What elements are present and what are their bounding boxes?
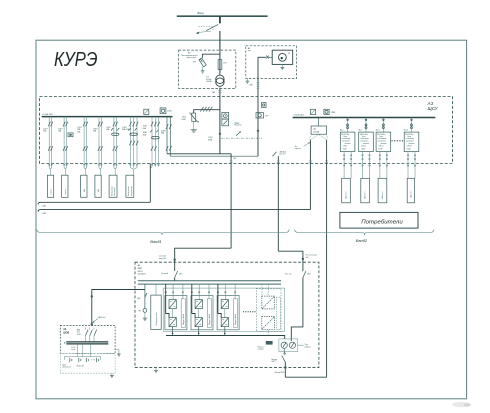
UPS internal bus: [138, 281, 281, 284]
svg-text:ШОБ: ШОБ: [63, 331, 69, 334]
bypass switch group: [279, 339, 311, 352]
svg-text:2ДГ: 2ДГ: [313, 128, 316, 130]
metering box A5: [246, 46, 297, 79]
fuse FU1: [218, 50, 227, 75]
right branch Вв.N: [404, 118, 413, 133]
node 1QF0: [208, 133, 221, 141]
svg-text:≈0,4кВ 2ШС: ≈0,4кВ 2ШС: [293, 114, 305, 116]
branch 1QF2: [58, 117, 73, 164]
ground (arrester): [201, 67, 205, 73]
svg-text:учёт: учёт: [248, 50, 252, 52]
svg-text:электропит.: электропит.: [406, 140, 415, 142]
svg-text:стабилизир.: стабилизир.: [360, 138, 370, 140]
svg-text:Блок: Блок: [408, 136, 412, 138]
meter PI1: [272, 50, 293, 64]
wire to arrester: [203, 54, 220, 58]
switchboard box A3 ЩСУ: [40, 97, 453, 164]
svg-text:АКБ №1: АКБ №1: [98, 316, 105, 319]
wire 1QF8 to drop: [167, 154, 258, 156]
inverter module1: [169, 309, 176, 327]
rectifier module2: [195, 300, 202, 309]
plug connector (generator): [309, 134, 328, 139]
right branch Вв.1: [340, 118, 349, 133]
breaker QF2 (reserve input): [285, 262, 311, 277]
battery elements box: [60, 353, 115, 373]
svg-text:≈0,4кВ 1ШС: ≈0,4кВ 1ШС: [42, 114, 54, 116]
svg-text:Ввод: Ввод: [198, 11, 204, 15]
ellipsis modules: [243, 311, 256, 312]
svg-text:электропит.: электропит.: [377, 140, 386, 142]
battery string wires: [78, 344, 91, 357]
lamp 2ЛВ1: [324, 109, 336, 114]
branch 1QF6: [122, 117, 138, 164]
svg-text:W: W: [288, 53, 290, 55]
load ЩС1: [109, 175, 117, 197]
load Насос1: [47, 175, 53, 197]
svg-text:Потребители: Потребители: [361, 220, 403, 226]
wire UPS output down: [275, 362, 327, 377]
UPS cabinet box A1 ИБП: [135, 262, 319, 367]
control link (dash-dot): [221, 123, 262, 138]
svg-text:УЗИП: УЗИП: [181, 119, 186, 121]
svg-text:байпас: байпас: [305, 345, 311, 348]
drawing frame: [36, 40, 467, 399]
svg-text:КУРЭ: КУРЭ: [54, 48, 98, 71]
node branch7 out: [150, 164, 159, 169]
branch 1QF1: [43, 117, 53, 164]
ellipsis dots: [392, 140, 404, 141]
inverter module2: [195, 309, 202, 327]
UPS power module 2: [191, 284, 213, 330]
svg-text:Электрообор.: Электрообор.: [128, 185, 130, 196]
svg-text:Элементы: Элементы: [62, 367, 71, 369]
stabilizer unit 2: [359, 132, 374, 151]
load ЩС2: [126, 175, 134, 197]
svg-text:стабилизир.: стабилизир.: [377, 138, 387, 140]
node load3: [83, 164, 87, 176]
ground (meter): [281, 64, 285, 69]
svg-text:Абонент: Абонент: [345, 191, 348, 198]
svg-text:Абонент: Абонент: [381, 191, 384, 198]
stubs under unit N: [407, 152, 416, 179]
node UPS reserve input: [302, 255, 317, 260]
svg-text:ЩСУ: ЩСУ: [428, 106, 439, 111]
module2 output: [198, 327, 200, 336]
stabilizer unit 3: [376, 132, 391, 151]
rectifier module1: [169, 300, 176, 309]
svg-text:Ввод1: Ввод1: [150, 239, 161, 244]
svg-text:элем.: элем.: [71, 349, 76, 351]
ground (UPS cabinet): [154, 368, 158, 373]
svg-text:Распределение: Распределение: [156, 312, 158, 325]
watermark smudge: [452, 402, 471, 407]
svg-text:Мод. 2В: Мод. 2В: [77, 365, 85, 367]
bus Ввод (top supply busbar): [177, 11, 268, 16]
svg-text:Сетевой: Сетевой: [161, 272, 168, 275]
branch 1QF5: [106, 117, 119, 164]
wire meter drop: [249, 57, 259, 96]
node load5: [113, 164, 117, 176]
branch 1QF8 (feeder to UPS): [161, 117, 172, 157]
node UPS mains input: [159, 255, 176, 261]
transformer T1: [206, 75, 224, 86]
svg-text:ввод №1: ввод №1: [159, 257, 166, 260]
breaker 2QF (PE branch): [137, 290, 147, 309]
rectifier module3: [221, 300, 228, 309]
right branch Вв.2: [358, 118, 367, 133]
svg-text:Блок: Блок: [344, 136, 348, 138]
switch 2АВ (reserve feeder): [272, 151, 286, 157]
branch 1QF3: [77, 117, 88, 164]
module1 output: [172, 327, 174, 336]
svg-text:ИБП: ИБП: [138, 268, 143, 270]
svg-text:подстанция: подстанция: [187, 57, 197, 59]
breaker QF1 (UPS input): [161, 262, 183, 281]
battery busbar: [64, 342, 108, 351]
lamp box HL1: [144, 109, 149, 114]
svg-text:стабилизир.: стабилизир.: [406, 138, 416, 140]
brace Ввод1: [37, 230, 289, 245]
node load1: [49, 164, 53, 176]
svg-text:стабилизир.: стабилизир.: [342, 138, 352, 140]
distribution panel (left tall rect): [151, 284, 161, 329]
changeover device boxes on main drop: [222, 112, 243, 126]
svg-text:Блок: Блок: [362, 136, 366, 138]
svg-text:вентиляции: вентиляции: [114, 187, 116, 196]
module1 label plate: [181, 299, 185, 328]
stabilizer unit N: [404, 132, 419, 151]
svg-text:Вв.N: Вв.N: [404, 130, 409, 132]
bus 1ШС (left section busbar): [42, 114, 173, 117]
UPS future module N (dashed): [256, 284, 281, 331]
svg-text:Вв.3: Вв.3: [376, 130, 380, 132]
svg-text:№2: №2: [306, 256, 309, 259]
load ЩО1: [81, 175, 87, 197]
svg-text:10кВт: 10кВт: [378, 149, 382, 151]
svg-text:2х58: 2х58: [77, 334, 81, 336]
surge arrester FV1: [199, 58, 206, 67]
wire battery feeder: [91, 284, 145, 325]
brace Ввод2: [295, 230, 434, 243]
UPS module group frame: [163, 288, 285, 331]
wire main feeder down (Ввод1 to UPS): [175, 154, 237, 262]
PE node: [138, 309, 147, 321]
module2 label plate: [207, 299, 211, 328]
svg-text:СЭП-3: СЭП-3: [378, 146, 383, 148]
wire generator cable down: [38, 140, 312, 215]
node load6: [130, 164, 138, 176]
ground (A5 box): [246, 79, 250, 84]
node load4: [98, 164, 102, 176]
transformer substation box A7: [179, 50, 236, 88]
drop from T1 continues inside ЩСУ: [219, 112, 221, 153]
wire from QS1 to A7 box: [219, 31, 221, 50]
breaker 3QF (battery, 3-pole): [85, 328, 96, 342]
UPS power module 3: [217, 284, 239, 330]
svg-text:1Т1: 1Т1: [206, 77, 209, 79]
svg-text:Абонент: Абонент: [364, 191, 367, 198]
branch 1QF4: [93, 117, 103, 164]
wire T1 to ЩСУ: [212, 88, 222, 113]
module3 output: [224, 327, 226, 336]
svg-text:электропит.: электропит.: [342, 140, 351, 142]
load ЩО2: [95, 175, 101, 197]
svg-text:1кВ1: 1кВ1: [42, 206, 46, 208]
svg-text:Насос: Насос: [65, 189, 67, 194]
switch UPS output: [272, 348, 286, 363]
title КУРЭ: [54, 48, 98, 71]
svg-text:кондиционир.: кондиционир.: [131, 185, 133, 196]
wire UPS output riser: [325, 140, 328, 378]
svg-text:10кВт: 10кВт: [361, 149, 365, 151]
UPS output bus: [166, 329, 285, 339]
svg-text:QF2: QF2: [307, 274, 311, 276]
load Абонент1: [342, 178, 351, 203]
svg-text:100кВА: 100кВА: [313, 130, 320, 133]
inverter module3: [221, 309, 228, 327]
rectifier moduleN (dashed): [262, 296, 275, 309]
load Абонент2: [361, 178, 370, 203]
disconnector QS1: [196, 16, 220, 34]
svg-text:1Ш1: 1Ш1: [233, 158, 236, 160]
load Насос2: [62, 175, 68, 197]
stubs under unit 1: [343, 152, 352, 179]
battery cells chain: [64, 357, 100, 363]
service box: [257, 341, 272, 351]
svg-text:40А 25А: 40А 25А: [122, 128, 130, 131]
svg-text:СЭП-1: СЭП-1: [343, 146, 348, 148]
svg-text:Вв.2: Вв.2: [358, 130, 362, 132]
bus 2ШС (right section busbar): [293, 114, 436, 117]
svg-text:Электрообор.: Электрообор.: [111, 185, 113, 196]
stubs under unit 2: [362, 152, 371, 179]
ground (battery cabinet): [115, 350, 121, 357]
stubs under unit 3: [379, 152, 388, 179]
svg-text:СЭП-2: СЭП-2: [361, 146, 366, 148]
svg-text:Абонент: Абонент: [410, 190, 413, 197]
lamp box 2HL: [310, 109, 315, 114]
box Потребители: [340, 212, 418, 228]
generator connection box 2ДГ: [311, 118, 327, 135]
svg-text:СЭП-N: СЭП-N: [407, 146, 413, 148]
svg-text:10кВт: 10кВт: [407, 149, 411, 151]
svg-text:Ввод2: Ввод2: [356, 238, 368, 243]
svg-text:Выход ИБП: Выход ИБП: [275, 372, 285, 374]
svg-text:Блок: Блок: [379, 136, 383, 138]
switch SA1 (meter circuit): [258, 56, 272, 59]
svg-text:без СУЗ: без СУЗ: [280, 154, 286, 156]
svg-text:байпас: байпас: [258, 348, 264, 351]
wire reserve to bypass: [291, 278, 303, 341]
lamp 1ЛВ1: [160, 108, 173, 114]
svg-text:1кВ2: 1кВ2: [42, 213, 46, 215]
ground (battery elements): [110, 373, 114, 378]
label Эл.агрегат: [295, 142, 310, 150]
svg-text:электропит.: электропит.: [360, 140, 369, 142]
module3 label plate: [233, 299, 237, 328]
stabilizer unit 1: [340, 132, 355, 151]
svg-text:QF1: QF1: [179, 274, 183, 276]
svg-text:(2Б-ИБП): (2Б-ИБП): [138, 274, 147, 276]
load Абонент3: [378, 178, 387, 203]
svg-text:агрегат: агрегат: [295, 148, 302, 150]
svg-text:6/0,4кВ: 6/0,4кВ: [206, 79, 211, 81]
wire 1кВ1 (branch7 cable): [38, 164, 150, 208]
load АбонентN: [407, 178, 414, 203]
right branch Вв.3: [376, 118, 385, 133]
node load2: [63, 164, 67, 176]
UPS power module 1: [165, 284, 187, 330]
surge protector tap 1FV2 УЗИП: [181, 107, 220, 132]
svg-text:1ТМГ: 1ТМГ: [236, 123, 240, 125]
battery cabinet A4 ШОБ: [60, 326, 115, 354]
svg-text:Рез. ист.: Рез. ист.: [285, 274, 292, 276]
node battery input: [91, 324, 93, 326]
svg-text:2х58: 2х58: [71, 347, 75, 349]
branch 1QF7: [143, 117, 160, 164]
svg-text:Вв.1: Вв.1: [340, 130, 344, 132]
wire reserve feeder down: [277, 156, 303, 262]
moduleN label plate (dashed): [276, 297, 280, 329]
svg-text:10кВт: 10кВт: [343, 149, 347, 151]
inverter moduleN (dashed): [262, 316, 275, 329]
meter branch inside ЩСУ: [256, 97, 269, 157]
svg-text:Насос: Насос: [51, 189, 53, 194]
